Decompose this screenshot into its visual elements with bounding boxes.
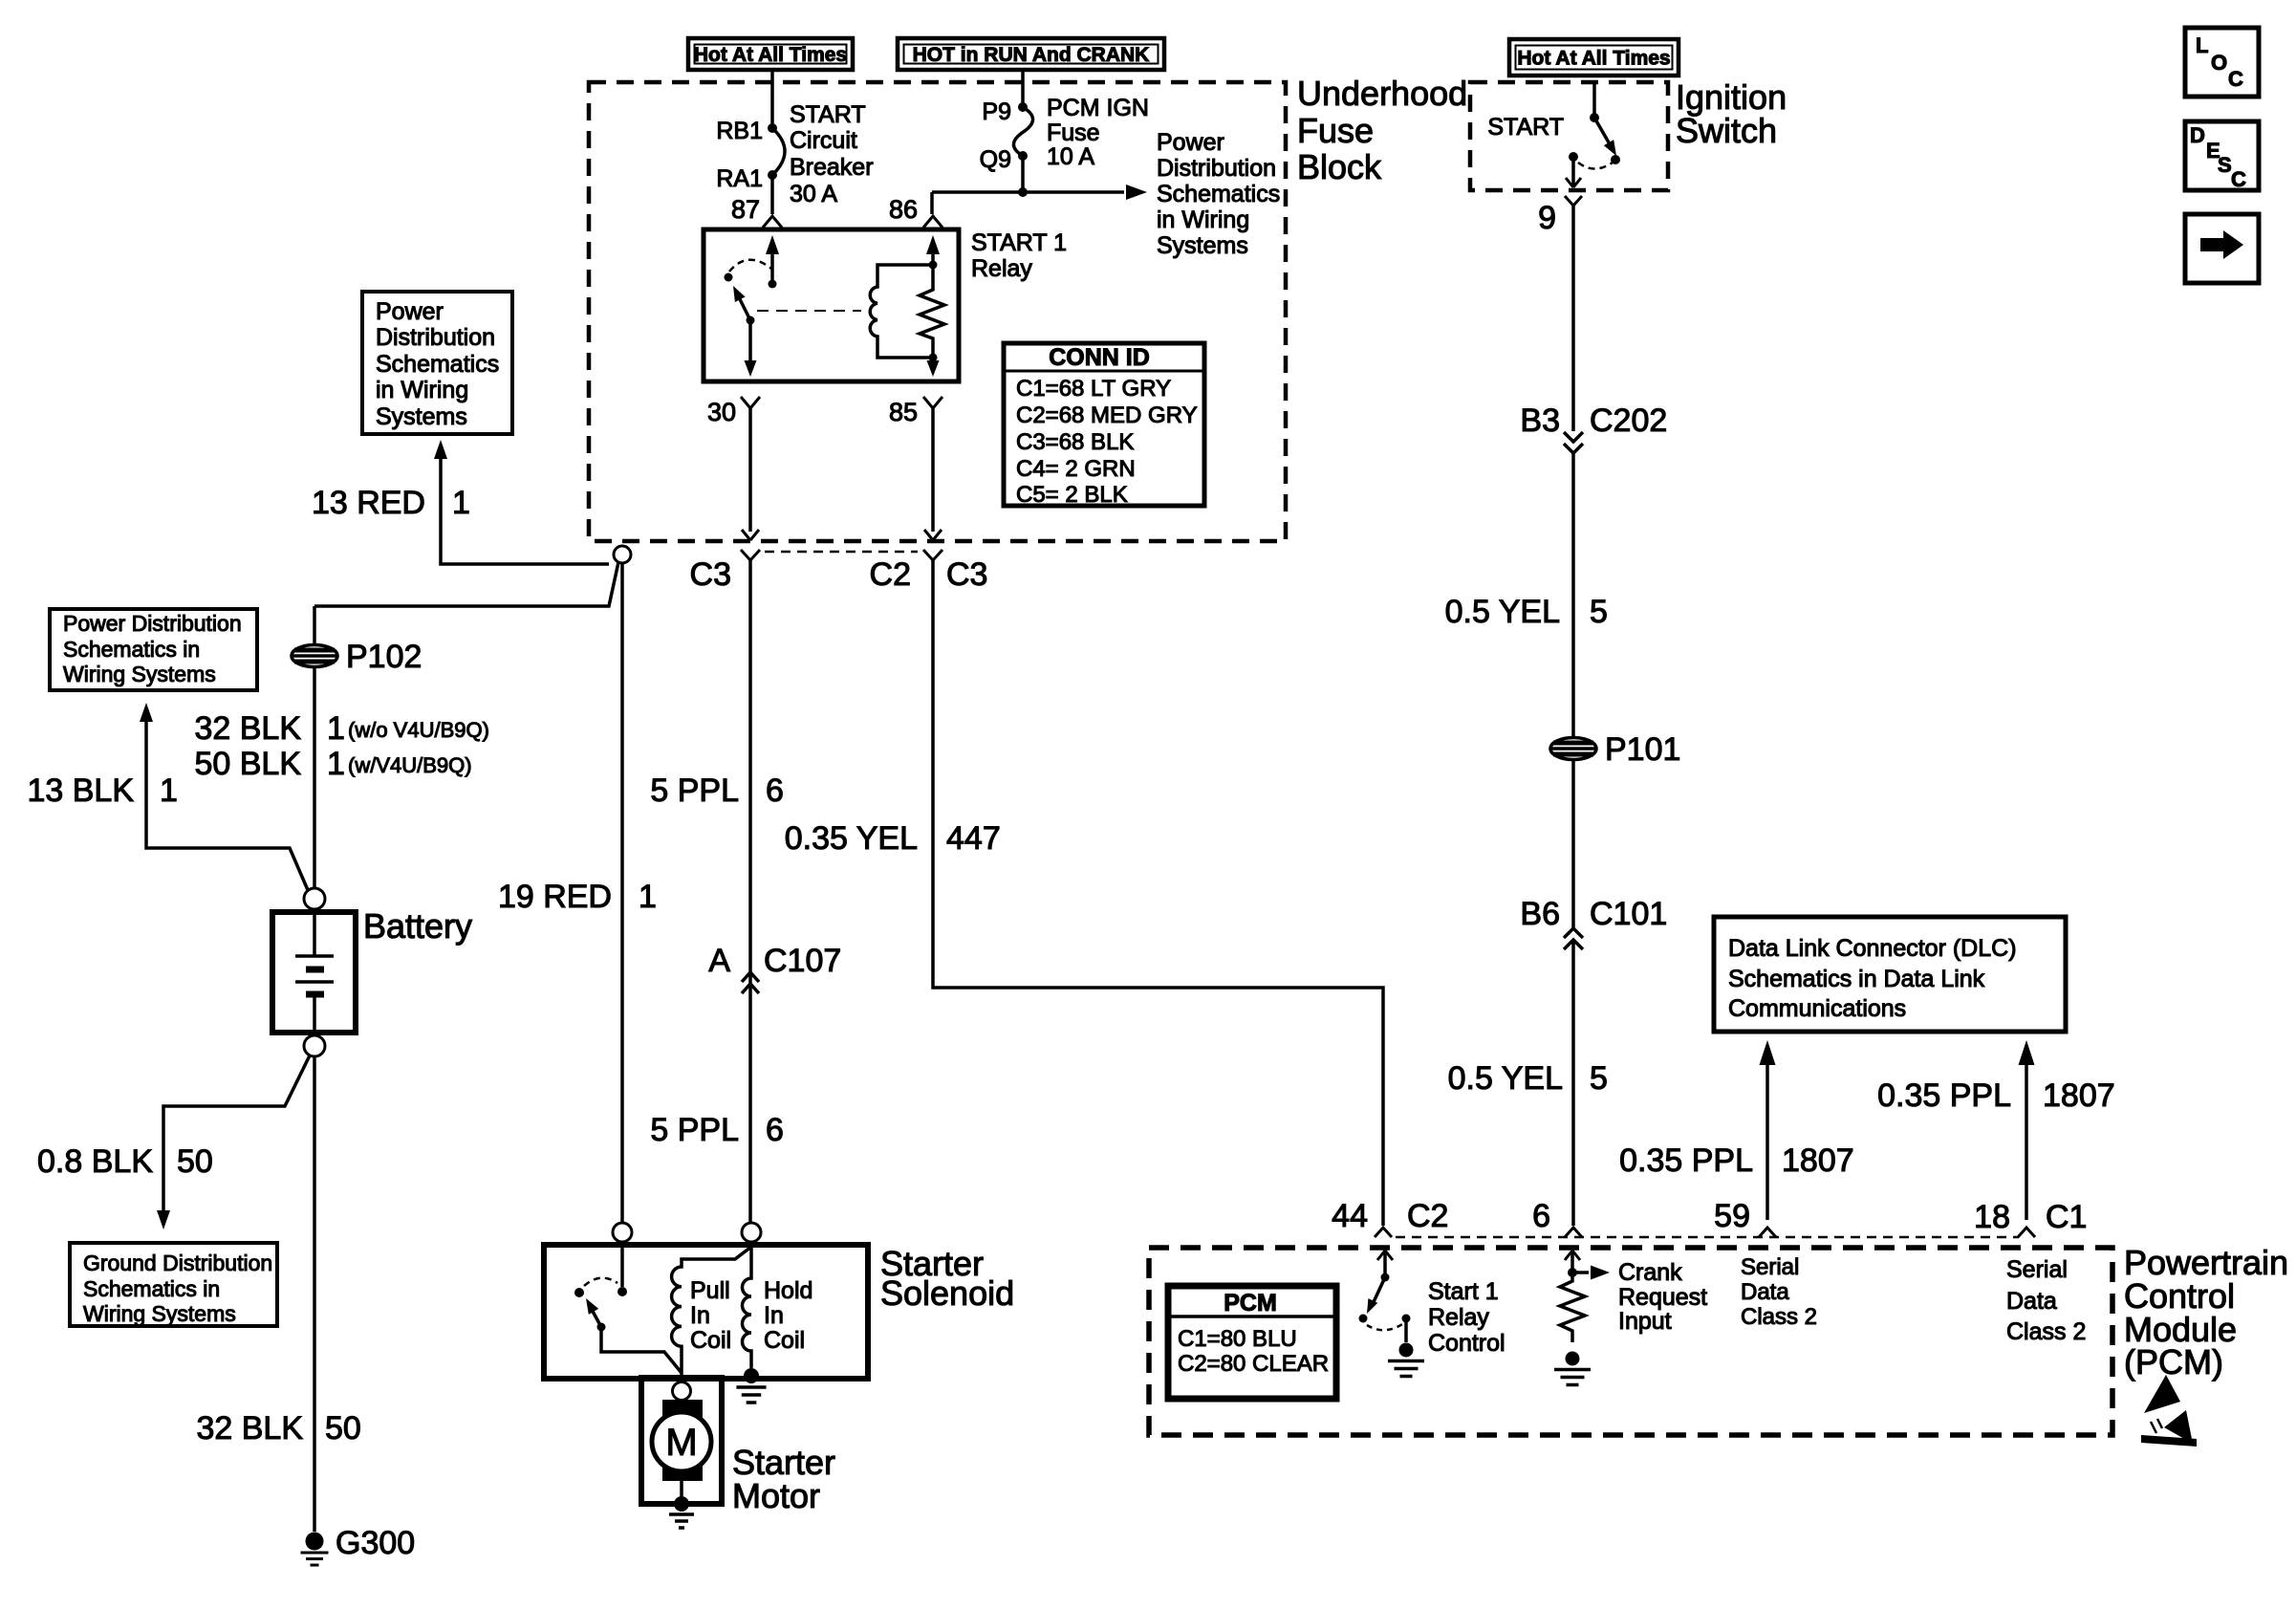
svg-text:C3: C3: [946, 556, 987, 593]
svg-text:Control: Control: [1428, 1330, 1505, 1357]
svg-text:50: 50: [325, 1410, 361, 1447]
svg-text:5 PPL: 5 PPL: [650, 772, 739, 809]
svg-text:C4= 2 GRN: C4= 2 GRN: [1016, 456, 1136, 482]
svg-text:1807: 1807: [2043, 1077, 2115, 1114]
svg-text:Data: Data: [1741, 1279, 1789, 1305]
svg-text:RB1: RB1: [716, 118, 763, 144]
svg-text:Switch: Switch: [1676, 111, 1777, 150]
svg-text:C1: C1: [2046, 1199, 2087, 1235]
svg-text:C2: C2: [1407, 1198, 1448, 1234]
svg-text:Systems: Systems: [1157, 232, 1248, 259]
svg-text:6: 6: [766, 1112, 784, 1148]
svg-text:B6: B6: [1520, 896, 1560, 932]
svg-text:Start 1: Start 1: [1428, 1278, 1499, 1305]
svg-text:in Wiring: in Wiring: [1157, 207, 1249, 233]
svg-text:C: C: [2231, 167, 2246, 191]
svg-text:(w/V4U/B9Q): (w/V4U/B9Q): [348, 753, 472, 777]
svg-text:Schematics: Schematics: [1157, 181, 1280, 207]
svg-text:Hot At All Times: Hot At All Times: [1517, 48, 1670, 70]
svg-text:Distribution: Distribution: [376, 324, 495, 351]
svg-text:C5= 2 BLK: C5= 2 BLK: [1016, 482, 1128, 508]
svg-text:C2=80 CLEAR: C2=80 CLEAR: [1178, 1351, 1329, 1377]
svg-text:0.5 YEL: 0.5 YEL: [1445, 594, 1560, 630]
svg-text:C3: C3: [690, 556, 731, 593]
svg-text:In: In: [690, 1302, 710, 1329]
svg-text:C2: C2: [870, 556, 911, 593]
svg-text:1: 1: [452, 485, 470, 521]
svg-text:Block: Block: [1297, 147, 1382, 186]
svg-text:13 RED: 13 RED: [312, 485, 425, 521]
svg-text:Serial: Serial: [1741, 1254, 1799, 1280]
svg-text:START 1: START 1: [971, 229, 1067, 256]
svg-text:Crank: Crank: [1618, 1259, 1682, 1286]
svg-text:Schematics in: Schematics in: [83, 1276, 220, 1301]
svg-text:32 BLK: 32 BLK: [194, 710, 301, 747]
svg-text:Coil: Coil: [764, 1327, 805, 1354]
svg-text:Request: Request: [1618, 1284, 1707, 1311]
svg-text:C1=68 LT GRY: C1=68 LT GRY: [1016, 376, 1171, 402]
svg-text:30 A: 30 A: [790, 181, 837, 207]
svg-text:START: START: [1487, 114, 1564, 141]
svg-text:0.35 PPL: 0.35 PPL: [1877, 1077, 2011, 1114]
svg-text:P101: P101: [1605, 731, 1680, 768]
svg-text:Wiring Systems: Wiring Systems: [83, 1301, 236, 1326]
svg-text:Solenoid: Solenoid: [880, 1273, 1014, 1313]
svg-text:(PCM): (PCM): [2124, 1342, 2223, 1382]
svg-text:C3=68 BLK: C3=68 BLK: [1016, 429, 1134, 455]
svg-text:L: L: [2196, 33, 2208, 57]
svg-text:Battery: Battery: [363, 906, 472, 946]
svg-text:HOT in RUN And CRANK: HOT in RUN And CRANK: [913, 44, 1150, 66]
svg-text:PCM: PCM: [1224, 1290, 1277, 1316]
svg-text:Distribution: Distribution: [1157, 155, 1276, 182]
svg-text:Ground Distribution: Ground Distribution: [83, 1251, 272, 1275]
svg-text:10 A: 10 A: [1047, 143, 1094, 170]
svg-text:Breaker: Breaker: [790, 154, 874, 181]
svg-text:Input: Input: [1618, 1308, 1672, 1335]
svg-text:C202: C202: [1590, 402, 1667, 439]
svg-text:START: START: [790, 101, 866, 128]
svg-text:1: 1: [327, 710, 345, 747]
svg-text:A: A: [708, 943, 730, 979]
svg-text:5: 5: [1590, 1060, 1608, 1097]
svg-text:6: 6: [1532, 1198, 1550, 1234]
svg-text:1807: 1807: [1782, 1142, 1854, 1179]
svg-text:Relay: Relay: [1428, 1304, 1489, 1331]
svg-text:Relay: Relay: [971, 255, 1032, 282]
svg-text:44: 44: [1332, 1198, 1368, 1234]
svg-text:86: 86: [889, 195, 918, 224]
svg-text:Power: Power: [376, 298, 444, 325]
svg-text:Schematics: Schematics: [376, 351, 499, 378]
svg-text:Class 2: Class 2: [2006, 1318, 2086, 1345]
svg-text:87: 87: [731, 195, 760, 224]
svg-text:59: 59: [1714, 1198, 1750, 1234]
svg-text:M: M: [665, 1422, 697, 1464]
svg-text:Communications: Communications: [1728, 995, 1906, 1022]
svg-text:0.35 PPL: 0.35 PPL: [1619, 1142, 1753, 1179]
svg-text:Hold: Hold: [764, 1277, 812, 1304]
svg-text:32 BLK: 32 BLK: [196, 1410, 303, 1447]
svg-text:P9: P9: [982, 98, 1011, 125]
svg-text:C107: C107: [764, 943, 841, 979]
svg-text:O: O: [2211, 51, 2227, 75]
svg-text:85: 85: [889, 398, 918, 426]
svg-text:19 RED: 19 RED: [498, 879, 612, 915]
svg-text:C2=68 MED GRY: C2=68 MED GRY: [1016, 402, 1198, 428]
svg-text:C: C: [2228, 67, 2243, 91]
svg-text:1: 1: [327, 746, 345, 782]
svg-text:Power Distribution: Power Distribution: [63, 611, 242, 636]
svg-text:1: 1: [160, 772, 178, 809]
svg-text:Fuse: Fuse: [1297, 111, 1374, 150]
svg-text:13 BLK: 13 BLK: [27, 772, 134, 809]
svg-text:18: 18: [1974, 1199, 2010, 1235]
svg-text:in Wiring: in Wiring: [376, 377, 468, 403]
svg-text:G300: G300: [336, 1525, 415, 1561]
svg-text:CONN ID: CONN ID: [1049, 344, 1150, 371]
svg-text:In: In: [764, 1302, 784, 1329]
svg-text:Schematics in: Schematics in: [63, 637, 200, 662]
svg-text:Serial: Serial: [2006, 1256, 2068, 1283]
svg-text:0.5 YEL: 0.5 YEL: [1448, 1060, 1563, 1097]
svg-text:Underhood: Underhood: [1297, 74, 1467, 113]
svg-text:Data: Data: [2006, 1288, 2057, 1315]
svg-text:447: 447: [946, 820, 1001, 857]
svg-text:50: 50: [177, 1143, 213, 1180]
svg-text:Systems: Systems: [376, 403, 467, 430]
svg-text:Power: Power: [1157, 129, 1224, 156]
svg-text:Class 2: Class 2: [1741, 1304, 1817, 1330]
svg-text:Hot At All Times: Hot At All Times: [694, 44, 847, 66]
svg-text:Wiring Systems: Wiring Systems: [63, 662, 216, 686]
svg-text:Q9: Q9: [980, 146, 1011, 173]
svg-text:0.35 YEL: 0.35 YEL: [785, 820, 918, 857]
svg-text:Schematics in Data Link: Schematics in Data Link: [1728, 966, 1985, 992]
svg-text:C101: C101: [1590, 896, 1667, 932]
svg-text:5: 5: [1590, 594, 1608, 630]
svg-text:9: 9: [1538, 200, 1556, 236]
svg-text:B3: B3: [1520, 402, 1560, 439]
svg-text:1: 1: [639, 879, 657, 915]
svg-text:30: 30: [707, 398, 736, 426]
svg-text:D: D: [2190, 123, 2205, 147]
svg-text:0.8 BLK: 0.8 BLK: [37, 1143, 153, 1180]
svg-text:P102: P102: [346, 639, 422, 675]
svg-text:C1=80 BLU: C1=80 BLU: [1178, 1326, 1297, 1352]
svg-text:Circuit: Circuit: [790, 127, 857, 154]
svg-text:Coil: Coil: [690, 1327, 731, 1354]
svg-text:6: 6: [766, 772, 784, 809]
svg-text:50 BLK: 50 BLK: [194, 746, 301, 782]
svg-text:S: S: [2218, 153, 2232, 177]
svg-text:5 PPL: 5 PPL: [650, 1112, 739, 1148]
svg-text:Motor: Motor: [732, 1476, 820, 1515]
svg-text:Fuse: Fuse: [1047, 120, 1100, 146]
svg-text:Data Link Connector (DLC): Data Link Connector (DLC): [1728, 935, 2017, 962]
svg-text:Pull: Pull: [690, 1277, 730, 1304]
svg-text:PCM IGN: PCM IGN: [1047, 95, 1149, 121]
svg-text:(w/o V4U/B9Q): (w/o V4U/B9Q): [348, 718, 489, 742]
svg-text:RA1: RA1: [716, 165, 763, 192]
